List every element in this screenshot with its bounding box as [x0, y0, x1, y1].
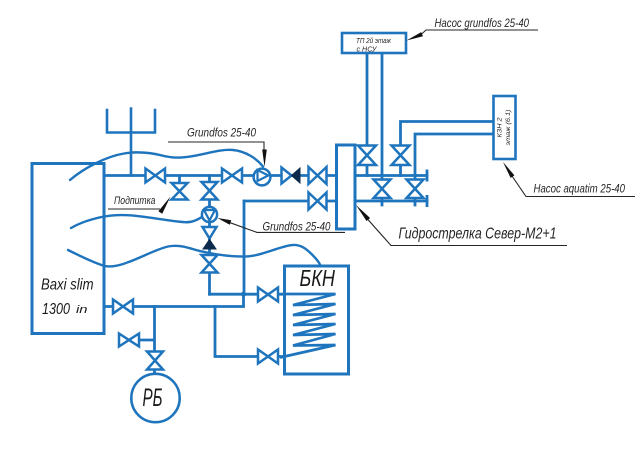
check valve supply: right dark triangle left: [292, 168, 301, 183]
wire right upper header: [355, 174, 427, 177]
wire KZN lower leg: [415, 134, 494, 205]
wire return drop x244: [243, 201, 246, 294]
check valve chain: bottom dark triangle up: [203, 240, 216, 250]
valve supply at separator: [309, 167, 327, 184]
svg-text:с НСУ: с НСУ: [357, 45, 378, 54]
wave lower: [68, 245, 320, 266]
wire BKN supply horizontal: [210, 293, 336, 296]
valve BKN supply: [258, 288, 278, 302]
svg-text:БКН: БКН: [300, 265, 336, 291]
expansion tank RB: [131, 374, 179, 422]
leader Grundfos top: [168, 142, 264, 153]
end tick lower header: [426, 195, 429, 207]
leaders (black): [108, 30, 635, 246]
valve RB stub: [119, 334, 139, 347]
wire right lower header: [355, 200, 427, 203]
valve on supply mid: [222, 169, 242, 183]
leader gidrostrelka: [367, 219, 567, 246]
box KZN: [494, 96, 516, 159]
valve boiler return: [113, 300, 133, 314]
valve return at separator: [309, 193, 327, 210]
hydraulic separator: [337, 145, 356, 229]
svg-text:Baxi slim: Baxi slim: [41, 277, 94, 294]
wire BKN return: [215, 307, 285, 357]
wire TP left leg: [366, 53, 369, 176]
pump on supply (triangle right): [254, 169, 271, 186]
svg-text:КЗН 2: КЗН 2: [497, 117, 504, 137]
wire pump chain vertical x209: [208, 176, 211, 295]
svg-text:этаж (6.1): этаж (6.1): [505, 110, 512, 146]
wire podpitka stub: [178, 176, 181, 184]
svg-text:1300: 1300: [42, 301, 70, 318]
valve chain top (vertical): [202, 182, 218, 200]
valve chain bottom (vertical): [202, 255, 218, 273]
wire boiler return pipe: [104, 294, 244, 306]
label KZN box: [497, 110, 513, 146]
wave upper: [70, 150, 263, 180]
leader Nasos grundfos: [420, 30, 538, 36]
valve BKN return: [258, 350, 278, 364]
leader Nasos aquatim: [511, 175, 635, 197]
wave middle: [71, 215, 204, 228]
coil inside BKN: [280, 294, 336, 358]
arrowhead to separator: [356, 205, 370, 221]
svg-text:Grundfos 25-40: Grundfos 25-40: [263, 220, 331, 234]
svg-text:Гидрострелка Север-М2+1: Гидрострелка Север-М2+1: [399, 226, 557, 243]
arrowhead podpitka: [158, 197, 170, 214]
chimney symbol: [107, 109, 155, 176]
wire left lower return pipe: [244, 200, 337, 203]
arrowhead to pump top: [262, 150, 267, 167]
wire KZN upper leg: [401, 122, 495, 176]
svg-text:Насос grundfos 25-40: Насос grundfos 25-40: [435, 16, 530, 30]
pump chain (vertical, triangle down): [202, 207, 217, 222]
svg-text:Grundfos 25-40: Grundfos 25-40: [187, 126, 256, 140]
valve podpitka (vertical): [172, 183, 188, 200]
boxes: [285, 33, 516, 374]
svg-text:in: in: [76, 304, 88, 316]
arrowhead to chain pump: [218, 218, 232, 225]
valve D (vertical, x400): [392, 146, 410, 166]
arrowhead to KZN box: [503, 162, 514, 178]
box TP 2nd floor: [342, 33, 406, 53]
valve RB (vertical): [147, 352, 163, 370]
svg-text:Насос aquatim 25-40: Насос aquatim 25-40: [534, 182, 626, 196]
wire RB branch: [139, 307, 155, 375]
wire main supply pipe boiler to separator: [104, 174, 337, 177]
arrowhead to TP box: [407, 32, 424, 40]
check valve supply: left outline triangle right: [282, 168, 292, 184]
valve B (vertical, x415): [407, 180, 424, 199]
box BKN: [285, 266, 349, 374]
check valve chain: top outline triangle down: [203, 227, 217, 239]
boiler Baxi slim 1300 in: [32, 164, 104, 334]
valve on supply at boiler: [146, 169, 166, 183]
leader Grundfos 2: [229, 222, 345, 232]
valve C (vertical, x367): [358, 146, 376, 166]
valve A (vertical, x382): [374, 180, 391, 199]
svg-text:Подпитка: Подпитка: [114, 195, 156, 207]
waves (freehand lines): [68, 150, 320, 267]
valves and pumps: [113, 146, 424, 423]
svg-text:РБ: РБ: [143, 384, 163, 412]
junction node: [241, 292, 246, 297]
end tick upper header: [426, 170, 429, 182]
wire TP right leg: [381, 53, 384, 205]
leader podpitka: [108, 208, 160, 210]
